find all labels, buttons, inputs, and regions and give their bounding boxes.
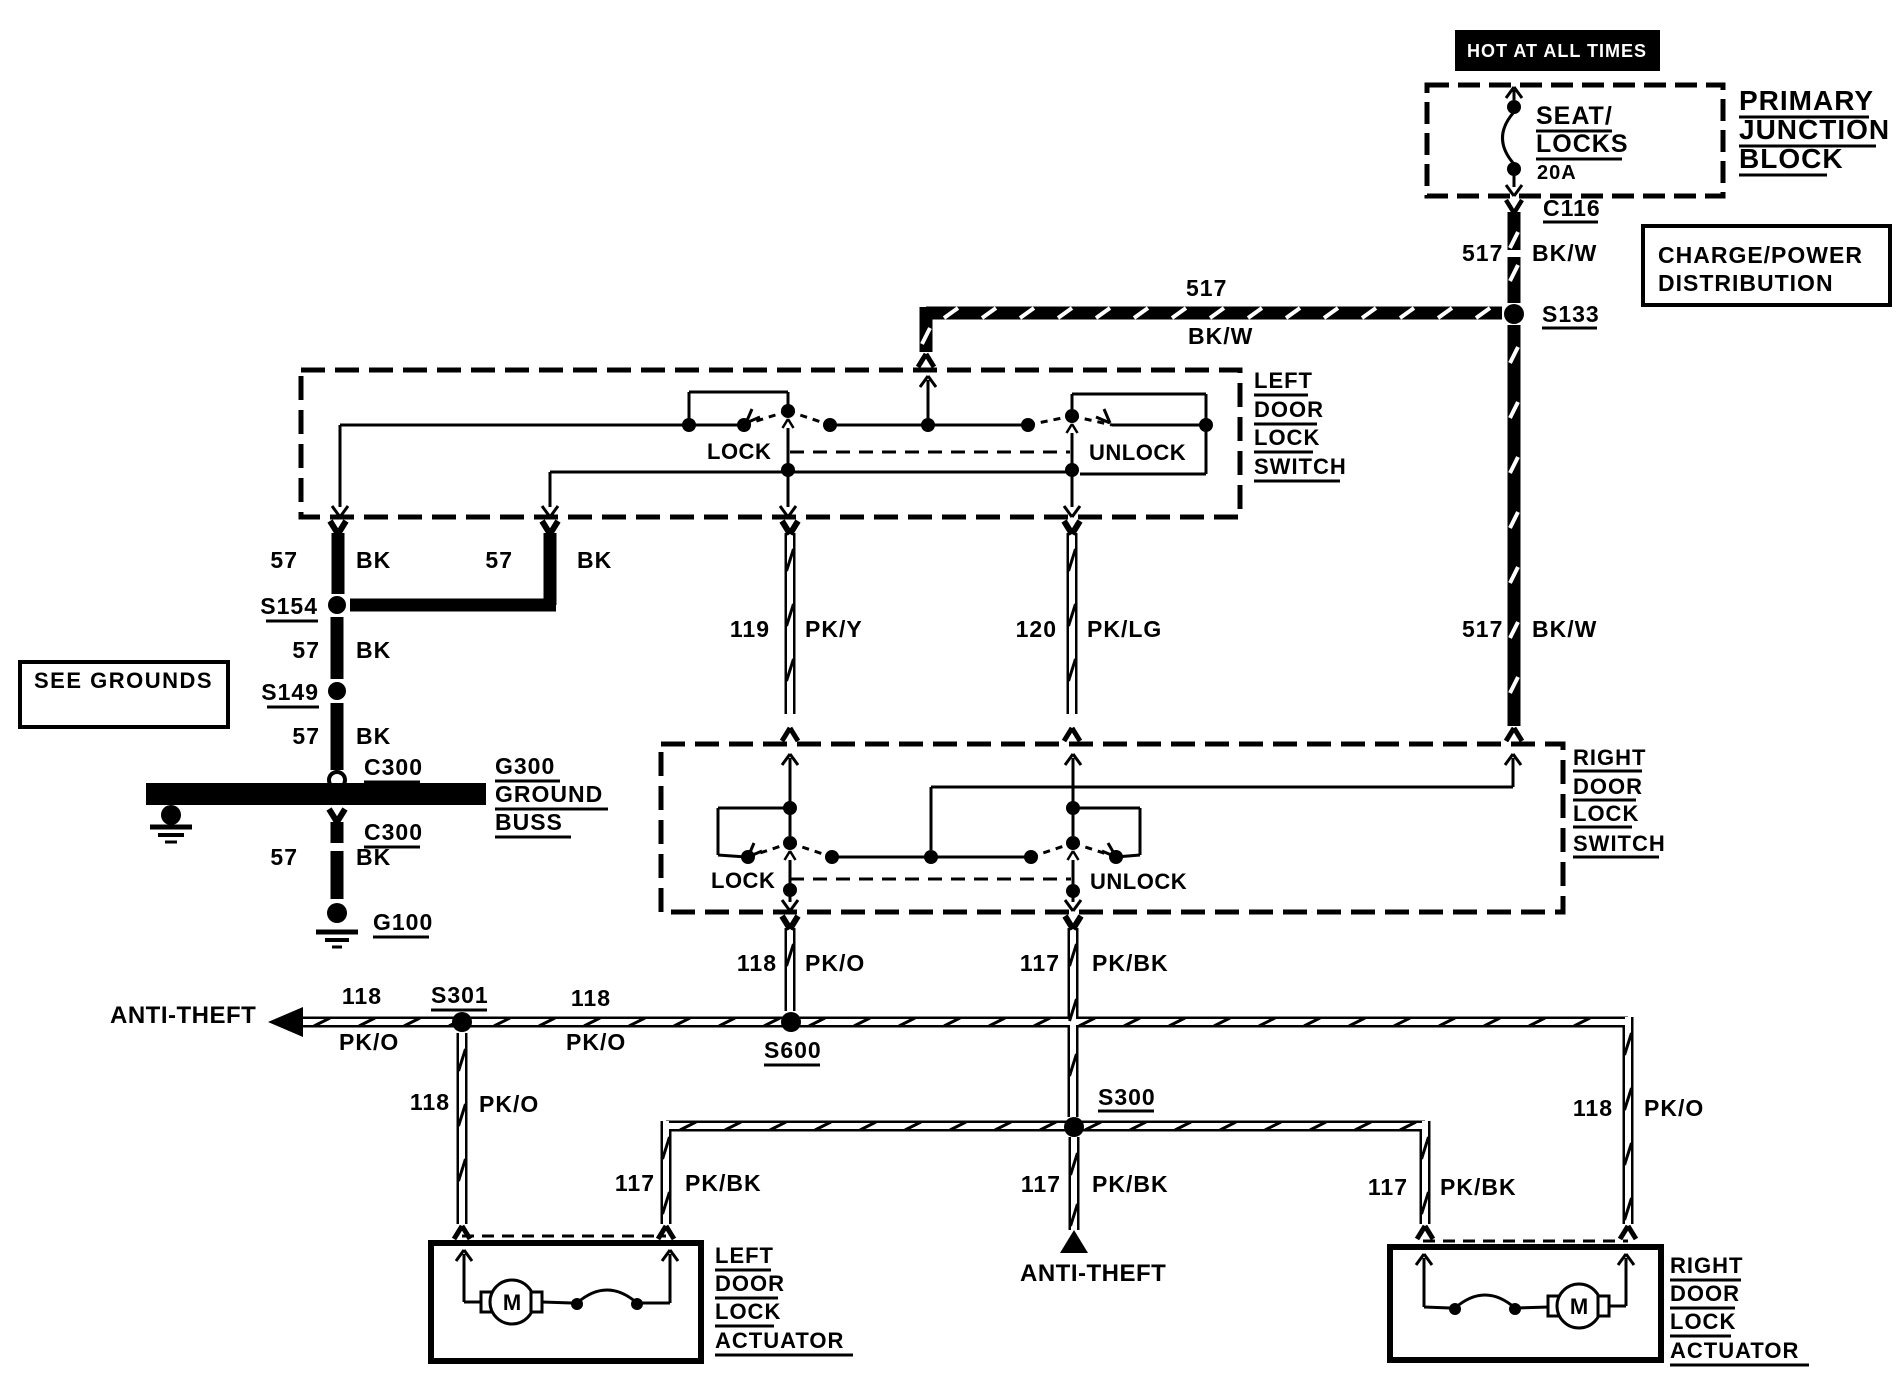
svg-text:LOCK: LOCK <box>707 439 771 464</box>
svg-text:CHARGE/POWER: CHARGE/POWER <box>1658 242 1863 268</box>
svg-text:119: 119 <box>730 616 770 642</box>
svg-text:LEFT: LEFT <box>1254 368 1313 393</box>
svg-text:57: 57 <box>292 723 320 749</box>
svg-text:117: 117 <box>1368 1174 1408 1200</box>
svg-text:ANTI-THEFT: ANTI-THEFT <box>110 1002 256 1029</box>
svg-text:SWITCH: SWITCH <box>1254 454 1347 479</box>
svg-text:PK/O: PK/O <box>805 950 865 976</box>
svg-text:57: 57 <box>270 547 298 573</box>
svg-text:117: 117 <box>1020 950 1060 976</box>
svg-text:118: 118 <box>342 983 382 1009</box>
svg-text:PK/O: PK/O <box>479 1091 539 1117</box>
svg-text:BK/W: BK/W <box>1188 323 1253 349</box>
svg-text:57: 57 <box>292 637 320 663</box>
svg-text:LOCK: LOCK <box>1254 425 1320 450</box>
svg-text:BK/W: BK/W <box>1532 616 1597 642</box>
svg-text:S301: S301 <box>431 982 489 1008</box>
svg-text:PK/Y: PK/Y <box>805 616 863 642</box>
svg-text:DOOR: DOOR <box>715 1271 785 1296</box>
svg-text:LEFT: LEFT <box>715 1243 774 1268</box>
svg-text:G100: G100 <box>373 909 433 935</box>
svg-text:GROUND: GROUND <box>495 781 603 807</box>
svg-text:LOCK: LOCK <box>1573 801 1639 826</box>
svg-text:DOOR: DOOR <box>1254 397 1324 422</box>
svg-text:M: M <box>1570 1294 1588 1319</box>
svg-text:UNLOCK: UNLOCK <box>1090 869 1187 894</box>
svg-text:ANTI-THEFT: ANTI-THEFT <box>1020 1260 1166 1287</box>
svg-text:DISTRIBUTION: DISTRIBUTION <box>1658 270 1834 296</box>
svg-text:BLOCK: BLOCK <box>1739 143 1844 174</box>
svg-text:PK/O: PK/O <box>566 1029 626 1055</box>
svg-text:PK/BK: PK/BK <box>1092 950 1169 976</box>
svg-text:BK/W: BK/W <box>1532 240 1597 266</box>
svg-text:BK: BK <box>577 547 612 573</box>
svg-text:PK/LG: PK/LG <box>1087 616 1162 642</box>
svg-text:PK/BK: PK/BK <box>685 1170 762 1196</box>
svg-text:20A: 20A <box>1537 162 1577 184</box>
svg-text:118: 118 <box>571 985 611 1011</box>
svg-text:517: 517 <box>1186 275 1227 301</box>
svg-text:S300: S300 <box>1098 1084 1156 1110</box>
svg-text:LOCKS: LOCKS <box>1536 130 1629 158</box>
svg-text:ACTUATOR: ACTUATOR <box>715 1328 844 1353</box>
svg-text:ACTUATOR: ACTUATOR <box>1670 1338 1799 1363</box>
svg-text:PK/BK: PK/BK <box>1440 1174 1517 1200</box>
svg-text:DOOR: DOOR <box>1573 774 1643 799</box>
svg-text:PK/O: PK/O <box>339 1029 399 1055</box>
svg-text:SEAT/: SEAT/ <box>1536 102 1613 130</box>
svg-text:PK/BK: PK/BK <box>1092 1171 1169 1197</box>
svg-text:BK: BK <box>356 844 391 870</box>
svg-text:G300: G300 <box>495 753 555 779</box>
svg-text:PRIMARY: PRIMARY <box>1739 85 1874 116</box>
svg-text:S600: S600 <box>764 1037 822 1063</box>
svg-text:PK/O: PK/O <box>1644 1095 1704 1121</box>
svg-text:118: 118 <box>1573 1095 1613 1121</box>
svg-text:120: 120 <box>1016 616 1057 642</box>
svg-text:JUNCTION: JUNCTION <box>1739 114 1890 145</box>
svg-text:BK: BK <box>356 637 391 663</box>
svg-text:S154: S154 <box>260 593 318 619</box>
svg-text:C300: C300 <box>364 754 423 780</box>
svg-text:DOOR: DOOR <box>1670 1281 1740 1306</box>
svg-text:SEE GROUNDS: SEE GROUNDS <box>34 668 213 693</box>
svg-text:C116: C116 <box>1543 195 1601 221</box>
svg-text:S149: S149 <box>261 679 319 705</box>
svg-text:118: 118 <box>410 1089 450 1115</box>
svg-text:117: 117 <box>615 1170 655 1196</box>
svg-text:517: 517 <box>1462 616 1503 642</box>
svg-text:SWITCH: SWITCH <box>1573 831 1666 856</box>
svg-text:C300: C300 <box>364 819 423 845</box>
svg-text:LOCK: LOCK <box>715 1299 781 1324</box>
svg-text:LOCK: LOCK <box>1670 1309 1736 1334</box>
svg-text:BK: BK <box>356 723 391 749</box>
svg-text:117: 117 <box>1021 1171 1061 1197</box>
svg-text:HOT AT ALL TIMES: HOT AT ALL TIMES <box>1467 41 1647 61</box>
svg-text:M: M <box>503 1290 521 1315</box>
svg-text:517: 517 <box>1462 240 1503 266</box>
svg-text:57: 57 <box>270 844 298 870</box>
svg-text:S133: S133 <box>1542 301 1600 327</box>
svg-text:RIGHT: RIGHT <box>1573 745 1646 770</box>
svg-text:BUSS: BUSS <box>495 809 563 835</box>
svg-text:RIGHT: RIGHT <box>1670 1253 1743 1278</box>
svg-text:118: 118 <box>737 950 777 976</box>
svg-text:LOCK: LOCK <box>711 868 775 893</box>
svg-text:57: 57 <box>485 547 513 573</box>
svg-text:BK: BK <box>356 547 391 573</box>
svg-text:UNLOCK: UNLOCK <box>1089 440 1186 465</box>
